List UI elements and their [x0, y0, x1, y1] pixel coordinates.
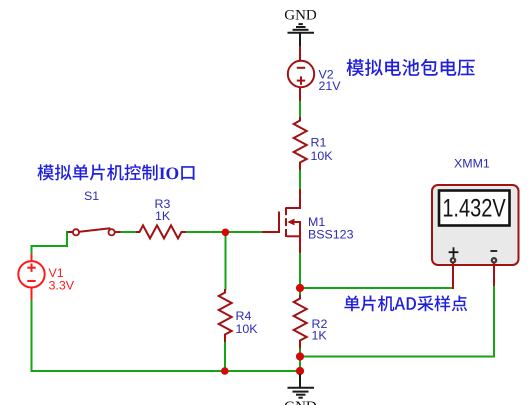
annotation: MCU control IO port (blue CJK) — [38, 164, 195, 180]
wire: S1 to R3 — [120, 231, 138, 233]
node B junction dot — [296, 352, 304, 360]
node A junction dot — [296, 284, 304, 292]
wire: R4 bottom to rail — [224, 341, 226, 371]
ground bottom — [288, 374, 315, 398]
wire: R3 to node D to M1 gate — [185, 231, 262, 233]
ground top — [288, 24, 315, 47]
resistor R2 — [294, 295, 307, 349]
svg-text:10K: 10K — [311, 149, 334, 163]
resistor R3 — [136, 225, 186, 238]
wire: node B to XMM1 minus — [300, 356, 494, 358]
wire: V2 bottom to R1 top — [299, 101, 301, 119]
svg-text:1K: 1K — [312, 329, 328, 343]
wire segment: ground to V2 (red lead) — [299, 46, 301, 61]
svg-text:21V: 21V — [319, 79, 342, 93]
node C junction dot — [296, 367, 304, 375]
mosfet M1 — [262, 189, 300, 253]
wire: node D down to R4 — [225, 232, 227, 290]
svg-text:XMM1: XMM1 — [454, 157, 490, 171]
svg-text:R4: R4 — [236, 309, 252, 323]
resistor R1 — [294, 117, 307, 170]
annotation: battery pack voltage (blue CJK) — [347, 59, 475, 76]
svg-text:R1: R1 — [311, 135, 327, 149]
wire: R2 bottom to node B — [299, 348, 301, 372]
wire: XMM1 minus lead red — [493, 263, 495, 287]
mosfet M1 arrow — [287, 219, 294, 226]
svg-text:10K: 10K — [236, 322, 259, 336]
svg-text:GND: GND — [284, 8, 317, 24]
wire: bottom rail — [32, 299, 301, 371]
svg-text:3.3V: 3.3V — [49, 279, 75, 293]
node D junction dot — [222, 229, 230, 237]
svg-text:S1: S1 — [84, 189, 99, 203]
wire: node A to XMM1 plus — [300, 287, 453, 289]
wire: XMM1 plus lead red — [452, 263, 454, 290]
node at R4 bottom — [221, 367, 229, 375]
multimeter display — [439, 191, 510, 226]
voltage source V2 — [288, 61, 314, 101]
svg-text:GND: GND — [284, 399, 317, 405]
wire: XMM1 minus vertical — [493, 285, 495, 358]
svg-text:1.432V: 1.432V — [442, 195, 505, 223]
multimeter plus mark — [449, 247, 498, 257]
wire: R1 bottom to M1 drain — [299, 169, 301, 190]
wire: M1 source to node A — [299, 252, 301, 296]
multimeter terminals — [450, 257, 457, 264]
voltage source V1 — [18, 254, 44, 300]
multimeter XMM1 body — [432, 185, 519, 265]
annotation: MCU AD sampling point (blue CJK) — [344, 295, 467, 311]
wire: V1 top to S1 — [32, 232, 70, 255]
switch S1 — [68, 228, 121, 235]
svg-text:BSS123: BSS123 — [308, 228, 354, 242]
svg-text:1K: 1K — [155, 209, 171, 223]
resistor R4 — [219, 289, 232, 342]
